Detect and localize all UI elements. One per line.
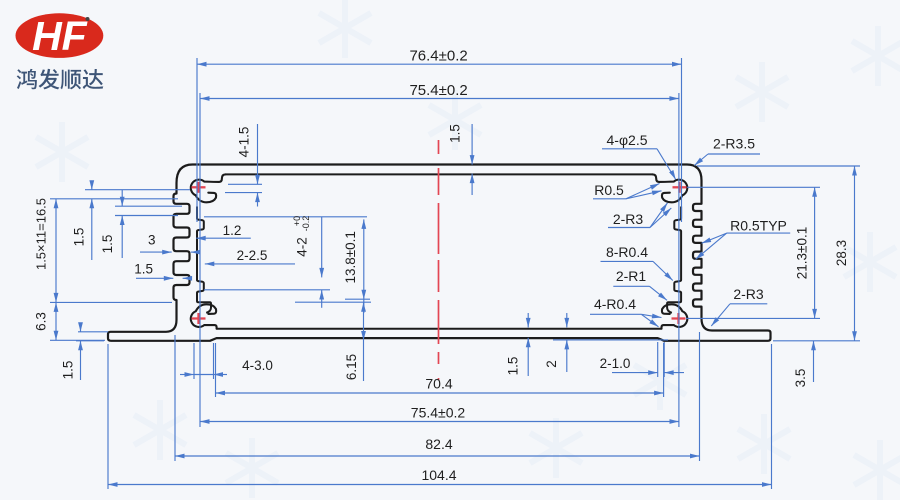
dimension 76.4±0.2 xyxy=(197,63,682,65)
screw boss bottom-left xyxy=(191,304,217,328)
extension line left 70.4 xyxy=(215,343,217,397)
dimension 4-3.0 xyxy=(193,343,195,379)
svg-text:2-R1: 2-R1 xyxy=(616,268,647,284)
svg-text:1.5: 1.5 xyxy=(100,235,115,254)
svg-text:21.3±0.1: 21.3±0.1 xyxy=(795,227,810,279)
svg-text:R0.5TYP: R0.5TYP xyxy=(730,218,787,234)
svg-text:75.4±0.2: 75.4±0.2 xyxy=(411,404,466,420)
dimension 2 plate xyxy=(553,339,668,341)
svg-text:13.8±0.1: 13.8±0.1 xyxy=(343,231,358,283)
dimension 21.3±0.1 xyxy=(687,186,820,188)
dimension 1.5 plate left xyxy=(78,331,108,333)
svg-text:2-R3: 2-R3 xyxy=(613,211,644,227)
screw boss bottom-right xyxy=(662,304,688,328)
svg-text:1.5: 1.5 xyxy=(72,228,87,247)
plate interior top line xyxy=(217,328,662,330)
svg-text:1.5: 1.5 xyxy=(61,361,76,380)
company name text xyxy=(17,69,37,89)
svg-text:2: 2 xyxy=(544,360,559,368)
center cross bottom-left xyxy=(192,317,206,319)
center cross bottom-right xyxy=(672,317,686,319)
dimension 1.5 fin xyxy=(136,277,173,279)
dimension 4-2 tol xyxy=(204,216,367,218)
center cross top-left xyxy=(192,186,206,188)
dimension 2-1.0 xyxy=(657,342,659,377)
extension line right 75.4 xyxy=(678,93,680,427)
red center line xyxy=(438,140,440,380)
top wall inner line xyxy=(225,173,653,175)
dimension 3 fin depth xyxy=(140,251,172,253)
svg-text:3: 3 xyxy=(148,233,156,248)
extension line right 82.4 xyxy=(699,332,701,461)
dimension 1.5 fin pitch b xyxy=(115,205,182,207)
dimension 75.4±0.2 bottom xyxy=(200,421,679,423)
dimension 2-2.5 xyxy=(205,263,295,265)
svg-text:76.4±0.2: 76.4±0.2 xyxy=(409,48,467,65)
svg-text:-0.2: -0.2 xyxy=(301,216,311,232)
profile outer outline xyxy=(108,165,771,341)
logo registered mark xyxy=(86,17,90,21)
svg-text:1.2: 1.2 xyxy=(223,223,242,238)
svg-text:104.4: 104.4 xyxy=(421,467,456,483)
left wall inner face with PCB rails xyxy=(197,207,211,313)
svg-text:6.3: 6.3 xyxy=(34,312,49,331)
svg-text:1.5: 1.5 xyxy=(134,262,153,277)
svg-text:4-3.0: 4-3.0 xyxy=(242,358,273,373)
extension line right 104.4 xyxy=(771,344,773,489)
svg-text:6.15: 6.15 xyxy=(344,354,359,380)
svg-text:28.3: 28.3 xyxy=(834,240,849,266)
extension line left 82.4 xyxy=(174,335,176,461)
screw boss top-right xyxy=(653,174,688,202)
extension line left 75.4 xyxy=(199,93,201,427)
extension line left 76.4 xyxy=(196,58,198,222)
right wall inner face with PCB rails xyxy=(667,207,681,313)
svg-text:3.5: 3.5 xyxy=(793,369,808,388)
dimension 104.4 xyxy=(108,484,772,486)
svg-text:2-1.0: 2-1.0 xyxy=(600,356,631,371)
svg-text:2-R3: 2-R3 xyxy=(733,286,764,302)
dimension 1.5 fin pitch a xyxy=(85,189,190,191)
dimension 1.5 top wall xyxy=(471,124,473,165)
svg-text:75.4±0.2: 75.4±0.2 xyxy=(409,82,467,99)
dimension 1.5x11=16.5 xyxy=(50,198,178,200)
screw boss top-left xyxy=(191,174,226,202)
svg-text:4-1.5: 4-1.5 xyxy=(236,127,251,158)
dimension 6.3 xyxy=(50,339,105,341)
svg-text:4-2: 4-2 xyxy=(295,237,310,257)
dimension 13.8±0.1 xyxy=(345,298,370,300)
dimension 1.5 plate mid xyxy=(527,313,529,327)
svg-text:82.4: 82.4 xyxy=(425,436,452,452)
dimension 82.4 xyxy=(175,455,700,457)
svg-text:2-R3.5: 2-R3.5 xyxy=(713,136,755,152)
svg-text:4-φ2.5: 4-φ2.5 xyxy=(607,132,648,148)
svg-text:4-R0.4: 4-R0.4 xyxy=(594,296,636,312)
extension line right 70.4 xyxy=(663,343,665,397)
dimension 70.4 xyxy=(216,392,664,394)
svg-text:2-2.5: 2-2.5 xyxy=(237,248,268,263)
svg-text:1.5×11=16.5: 1.5×11=16.5 xyxy=(34,198,49,270)
center cross top-right xyxy=(673,186,687,188)
svg-text:HF: HF xyxy=(32,13,88,59)
dimension 28.3 xyxy=(697,165,860,167)
svg-text:1.5: 1.5 xyxy=(505,357,520,376)
company logo ellipse xyxy=(16,13,104,58)
dimension 75.4±0.2 top xyxy=(200,98,679,100)
svg-text:1.5: 1.5 xyxy=(448,124,463,143)
svg-text:70.4: 70.4 xyxy=(425,376,452,392)
svg-text:8-R0.4: 8-R0.4 xyxy=(606,244,648,260)
dimension 1.2 xyxy=(196,237,251,239)
dimension 6.15 xyxy=(295,301,371,303)
dimension 4-1.5 xyxy=(228,183,262,185)
svg-text:R0.5: R0.5 xyxy=(594,182,624,198)
extension line right 76.4 xyxy=(681,58,683,222)
extension line left 104.4 xyxy=(107,344,109,489)
dimension 3.5 xyxy=(813,341,815,382)
